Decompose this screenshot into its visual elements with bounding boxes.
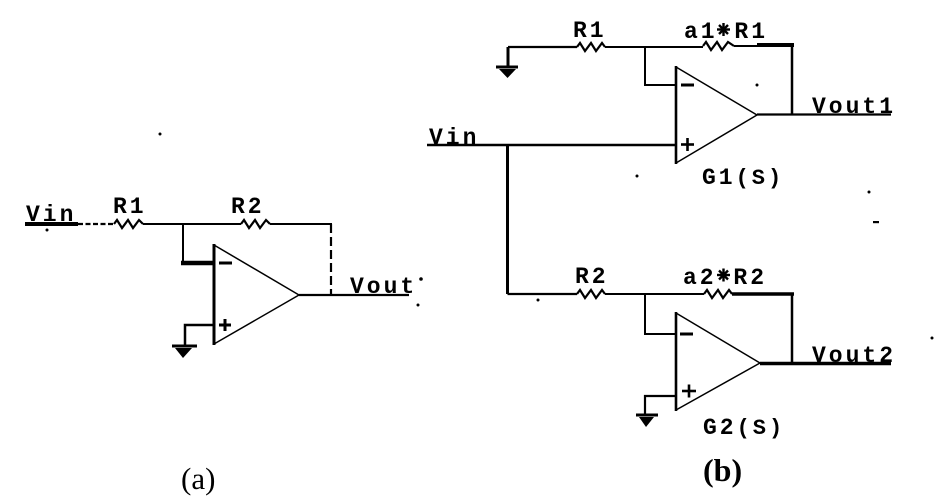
- svg-text:R1: R1: [113, 194, 147, 220]
- svg-text:R2: R2: [231, 194, 265, 220]
- wire Vin to R1 (dashed scan): [78, 223, 114, 225]
- wire gnd corner to R1 (b): [508, 46, 577, 48]
- wire feedback vertical G1: [791, 45, 794, 114]
- label R2 (b): [575, 264, 609, 290]
- op-amp U2 G1: [676, 66, 757, 164]
- wire a1*R1 to corner thin: [734, 45, 758, 47]
- wire output (a): [299, 294, 409, 296]
- node Vout2 label: [812, 343, 896, 369]
- pin minus G2: [680, 333, 693, 336]
- resistor R2 (b): [577, 290, 605, 298]
- wire a2*R2 to corner thick: [732, 292, 794, 296]
- pin plus G2: [682, 385, 696, 398]
- wire R2 to right corner (a): [270, 223, 332, 225]
- resistor a1*R1: [703, 42, 734, 50]
- label asterisk of a2*R2: [717, 269, 730, 282]
- node Vin label (b): [429, 125, 479, 151]
- pin minus G1: [681, 84, 694, 87]
- label a2*R2: [683, 265, 767, 291]
- pin plus (a): [219, 319, 231, 331]
- wire Vin line (b): [427, 144, 676, 146]
- wire R1 to R2 top (a): [143, 223, 241, 225]
- node junction (a) inverting tap: [182, 224, 184, 262]
- svg-text:Vout2: Vout2: [812, 343, 896, 369]
- wire to inverting input (a) thick: [181, 261, 214, 266]
- wire Vin underline stub (a): [25, 222, 78, 226]
- ground (a): [172, 346, 197, 358]
- wire R2 to a2*R2: [605, 293, 704, 295]
- svg-text:Vout1: Vout1: [812, 94, 896, 120]
- node Vout label (a): [350, 274, 417, 300]
- resistor a2*R2: [704, 290, 732, 298]
- label G1(S): [702, 165, 784, 191]
- svg-text:(b): (b): [703, 452, 742, 488]
- resistor R1 (a): [114, 220, 143, 228]
- wire output G2 thick: [760, 362, 891, 366]
- wire feedback vertical G2: [791, 294, 794, 363]
- ground G2: [636, 415, 658, 427]
- svg-text:Vout: Vout: [350, 274, 417, 300]
- ground arrow top-left (b): [496, 47, 518, 78]
- label asterisk of a1*R1: [717, 23, 730, 36]
- resistor R1 (b): [577, 43, 605, 51]
- wire a1*R1 corner thick: [757, 43, 794, 47]
- op-amp U3 G2: [676, 312, 760, 411]
- node junction G1 inverting tap: [645, 47, 677, 85]
- wire feedback vertical (a) dashed: [330, 224, 332, 295]
- pin plus G1: [681, 138, 694, 151]
- svg-text:(a): (a): [181, 461, 215, 496]
- scan speck dots: [46, 84, 934, 340]
- svg-text:Vin: Vin: [429, 125, 479, 151]
- node Vout1 label: [812, 94, 896, 120]
- wire Vin junction vertical (b): [506, 145, 509, 294]
- op-amp U1 (a): [214, 244, 299, 345]
- svg-text:R1: R1: [573, 18, 607, 44]
- label R1 (b): [573, 18, 607, 44]
- wire plus input to ground (a): [185, 325, 214, 345]
- node Vin label (a): [26, 202, 76, 228]
- svg-text:G2(S): G2(S): [703, 415, 785, 441]
- pin minus (a): [219, 262, 232, 265]
- wire Vin corner to R2 (b): [508, 293, 578, 295]
- svg-text:R2: R2: [575, 264, 609, 290]
- svg-text:G1(S): G1(S): [702, 165, 784, 191]
- wire plus input to ground G2: [645, 396, 676, 414]
- label (b) caption: [703, 452, 742, 488]
- label R2 (a): [231, 194, 265, 220]
- label a1*R1: [684, 19, 768, 45]
- label (a) caption: [181, 461, 215, 496]
- label R1 (a): [113, 194, 147, 220]
- label G2(S): [703, 415, 785, 441]
- node junction G2 inverting tap: [645, 294, 677, 334]
- resistor R2 (a): [241, 220, 270, 228]
- wire output G1: [757, 113, 891, 115]
- wire R1 to a1*R1 (b): [605, 46, 703, 48]
